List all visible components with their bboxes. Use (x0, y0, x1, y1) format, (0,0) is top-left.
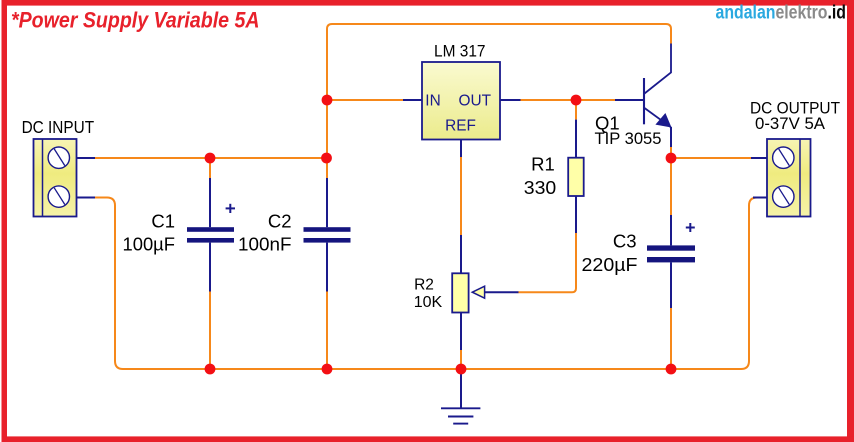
svg-text:0-37V 5A: 0-37V 5A (755, 115, 825, 133)
label 330 (524, 177, 557, 198)
node ground rail at C3 (666, 364, 677, 375)
wire input rail (95, 157, 327, 159)
wire top rail loop (327, 24, 671, 178)
resistor R1 body (568, 158, 584, 196)
capacitor C3 plates (647, 245, 695, 262)
node input rail at left vertical (321, 153, 332, 164)
R2 wiper arrow (472, 286, 518, 298)
label R2 (414, 277, 434, 294)
svg-text:330: 330 (524, 177, 557, 198)
node ground rail at R2 (456, 364, 467, 375)
DC output terminal block X2 (767, 139, 811, 217)
wire LM317 OUT to Q1 base (521, 99, 616, 101)
node input rail at C1 (205, 153, 216, 164)
svg-text:10K: 10K (414, 294, 443, 311)
label C1 (151, 210, 175, 231)
regulator U1 LM317 body (422, 62, 500, 140)
wire C3 bottom to rail (670, 308, 672, 369)
label 10K (414, 294, 443, 311)
C1 bottom pin (209, 243, 211, 292)
svg-text:LM 317: LM 317 (434, 42, 486, 60)
DC input terminal block X1 (34, 139, 77, 217)
svg-text:C1: C1 (151, 210, 175, 231)
LM317 pin REF stub (460, 140, 462, 158)
label 220uF (582, 254, 638, 275)
wire out node down to R1 (575, 100, 577, 120)
node ground rail at C1 (205, 364, 216, 375)
C1 top pin (209, 178, 211, 227)
wire Q1 emitter to output node (670, 147, 672, 158)
label 0-37V 5A (755, 115, 825, 133)
C2 bottom pin (326, 243, 328, 292)
svg-text:100µF: 100µF (123, 234, 176, 255)
svg-text:DC INPUT: DC INPUT (22, 117, 95, 137)
pin label REF (445, 117, 476, 134)
label R1 (531, 153, 555, 174)
wire C1 bottom to rail (209, 292, 211, 370)
label TIP 3055 (595, 130, 662, 148)
LM317 pin OUT stub (500, 99, 521, 101)
R1 bottom pin (575, 196, 577, 233)
wire ground rail from DC input low pin to DC output low pin (95, 198, 757, 370)
wire output node down to C3 (670, 158, 672, 215)
wire LM317 IN to left vertical (327, 99, 403, 101)
C3 bottom pin (670, 262, 672, 308)
svg-text:100nF: 100nF (238, 234, 292, 255)
label DC OUTPUT (750, 100, 840, 118)
R1 top pin (575, 120, 577, 158)
svg-text:andalanelektro.id: andalanelektro.id (716, 2, 847, 24)
transistor Q1 TIP3055 (615, 44, 672, 148)
svg-text:*Power Supply Variable 5A: *Power Supply Variable 5A (11, 7, 260, 32)
label C2 (268, 210, 292, 231)
capacitor C2 plates (304, 227, 351, 242)
R2 top pin (460, 235, 462, 274)
label LM 317 (434, 42, 486, 60)
wire C2 bottom to rail (326, 292, 328, 370)
C3 top pin (670, 215, 672, 245)
label DC INPUT (22, 117, 95, 137)
wire R2 bottom to ground rail (460, 350, 462, 369)
LM317 pin IN stub (403, 99, 422, 101)
wire output node to DC output top pin (671, 157, 751, 159)
node output / emitter (666, 153, 677, 164)
node LM317 IN (322, 95, 333, 106)
label 100uF (123, 234, 176, 255)
pin label IN (425, 92, 440, 109)
svg-text:IN: IN (425, 92, 440, 109)
svg-text:TIP 3055: TIP 3055 (595, 130, 662, 148)
label 100nF (238, 234, 292, 255)
svg-text:R1: R1 (531, 153, 555, 174)
wire Q1 collector top stub (670, 30, 672, 44)
svg-text:REF: REF (445, 117, 476, 134)
capacitor C1 plates (187, 227, 234, 242)
pin label OUT (459, 92, 492, 109)
wire C1 top stub (209, 158, 211, 178)
C2 top pin (326, 178, 328, 227)
svg-text:OUT: OUT (459, 92, 492, 109)
logo andalanelektro.id (716, 2, 847, 24)
C1 polarity plus (226, 204, 235, 213)
wire LM317 REF to R2 (460, 157, 462, 235)
svg-text:R2: R2 (414, 277, 434, 294)
wire R1 bottom to R2 wiper (519, 233, 577, 292)
DC input pin 1 stub (77, 157, 96, 159)
DC input pin 2 stub (77, 197, 96, 199)
DC output pin 1 stub (751, 157, 767, 159)
DC output pin 2 stub (753, 197, 767, 199)
potentiometer R2 body (452, 273, 468, 312)
R2 bottom pin (460, 313, 462, 350)
svg-text:C2: C2 (268, 210, 292, 231)
title (11, 7, 260, 32)
node LM317 OUT / R1 (571, 95, 582, 106)
svg-text:C3: C3 (613, 231, 637, 252)
label C3 (613, 231, 637, 252)
svg-text:220µF: 220µF (582, 254, 638, 275)
ground symbol (441, 369, 480, 424)
label Q1 (595, 112, 620, 133)
C3 polarity plus (686, 223, 695, 232)
node ground rail at C2 (322, 364, 333, 375)
